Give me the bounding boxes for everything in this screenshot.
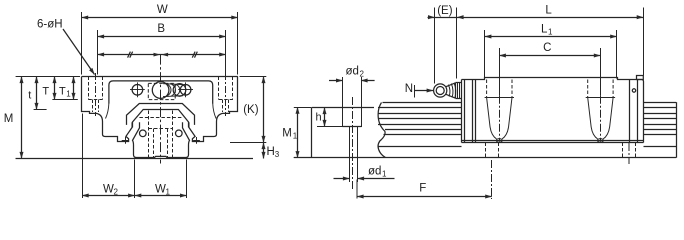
dimension line E/L <box>428 8 644 84</box>
block bolt hole left (hidden cup) <box>485 80 514 143</box>
dimension W <box>82 12 238 75</box>
svg-text:(K): (K) <box>243 104 259 116</box>
right crosshair circle <box>178 82 193 97</box>
ball-circulation center circle <box>152 82 169 99</box>
svg-text:ød: ød <box>346 66 359 78</box>
dimension (K) <box>230 77 266 143</box>
svg-text:L: L <box>545 5 552 17</box>
dimension phi-d1 <box>334 178 395 180</box>
centerline cup right <box>600 96 602 142</box>
hole centerline <box>352 97 354 190</box>
block outline side view <box>462 78 644 143</box>
dimension phi-d2 <box>329 80 375 82</box>
end plate outline <box>109 81 213 104</box>
centerline rail hole 2 <box>628 143 630 164</box>
rail bolt hole 1 under block (hidden) <box>486 143 499 158</box>
svg-text:3: 3 <box>275 150 280 159</box>
rail top hidden line <box>139 117 182 119</box>
ball-circulation right circle <box>173 84 186 97</box>
vertical centerline of front view <box>160 55 162 164</box>
base/datum line <box>16 158 253 160</box>
dimension M1 <box>294 107 311 158</box>
block bolt hole right (hidden cup) <box>586 80 615 143</box>
svg-text:F: F <box>419 183 426 195</box>
svg-text:ød: ød <box>368 166 381 178</box>
centerline hole right wing <box>225 73 227 116</box>
block outer profile left side <box>82 77 133 142</box>
svg-text:W: W <box>155 184 166 196</box>
svg-text:t: t <box>28 90 31 102</box>
svg-text:2: 2 <box>360 70 365 79</box>
dimension t <box>34 77 47 110</box>
rail section detail box <box>312 107 375 158</box>
mounting hole left wing (hidden) <box>88 77 102 113</box>
dimension T <box>54 77 56 100</box>
rail outline left flank <box>133 122 140 157</box>
svg-text:H: H <box>267 146 275 158</box>
svg-text:1: 1 <box>293 132 298 141</box>
svg-text:h: h <box>316 112 322 124</box>
upper ball left <box>140 130 147 137</box>
svg-text:L: L <box>541 24 548 36</box>
svg-text:1: 1 <box>66 90 71 99</box>
rail left end face <box>378 103 385 158</box>
dimension F <box>357 160 492 199</box>
svg-text:6-øH: 6-øH <box>37 19 63 31</box>
rail bolt hole (hidden) <box>149 111 173 158</box>
svg-text:B: B <box>157 23 165 35</box>
end cap tab and screw <box>637 76 644 80</box>
hidden counterbore seat line <box>149 128 173 130</box>
svg-text:M: M <box>4 113 14 125</box>
svg-text:T: T <box>42 86 49 98</box>
svg-text:W: W <box>103 184 114 196</box>
ball bore outline <box>163 84 183 85</box>
svg-text:M: M <box>282 128 292 140</box>
svg-text:T: T <box>59 86 66 98</box>
block top surface lines <box>82 76 238 78</box>
svg-text:N: N <box>405 83 413 95</box>
rail right end face <box>676 102 678 158</box>
upper ball right <box>176 130 183 137</box>
svg-text:1: 1 <box>166 188 171 197</box>
dimension W2 <box>82 114 135 199</box>
svg-text:C: C <box>543 42 551 54</box>
dimension M <box>16 77 83 159</box>
block outer profile right side <box>189 77 238 142</box>
ball stack <box>167 84 180 96</box>
mounting hole right wing (hidden) <box>219 77 233 113</box>
dimension C <box>499 48 600 96</box>
counterbore phi-d2 <box>343 77 362 127</box>
bolt hole phi-d1 <box>350 127 358 183</box>
grease nipple <box>434 83 462 99</box>
shared datum tick for T and T1 <box>52 99 77 101</box>
dimension H3 <box>263 143 265 159</box>
rail side view top and groove lines <box>378 103 676 147</box>
hidden box around ball path <box>148 83 175 99</box>
rail outline right flank <box>183 122 190 157</box>
svg-text:1: 1 <box>548 28 553 37</box>
dimension T1 <box>73 77 75 100</box>
dimension h <box>317 108 343 127</box>
base line right view <box>294 157 676 159</box>
equal-spacing dimension line with hash marks <box>98 52 226 58</box>
svg-text:2: 2 <box>114 188 119 197</box>
svg-text:1: 1 <box>382 170 387 179</box>
rail bottom with relief notch <box>137 156 186 157</box>
centerline cup left <box>499 96 501 142</box>
boss outer contour on end plate <box>127 104 195 125</box>
svg-text:W: W <box>157 4 168 16</box>
rail bolt hole 2 under block (hidden) <box>623 143 636 158</box>
svg-text:(E): (E) <box>437 5 453 17</box>
dimension W1 <box>135 160 187 199</box>
lower ball center mark left <box>122 137 129 144</box>
ball-circulation bore left circle <box>130 82 145 97</box>
centerline hole left wing <box>95 73 97 116</box>
boss inner contour on end plate <box>133 110 189 128</box>
dimension L1 <box>485 30 617 79</box>
lower ball center mark right <box>193 137 200 144</box>
dimension B <box>98 30 226 75</box>
